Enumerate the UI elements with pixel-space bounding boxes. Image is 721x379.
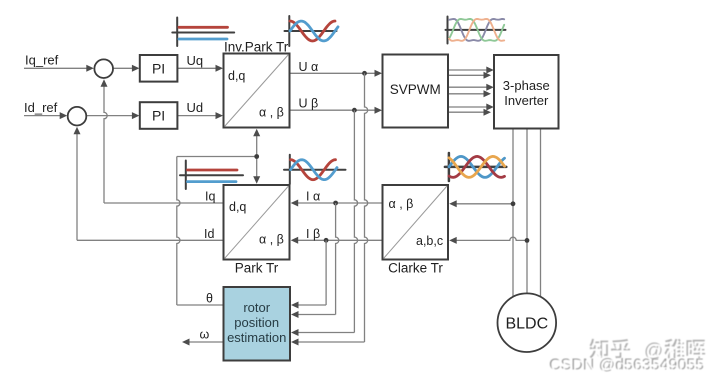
wire Iq_ref input bbox=[24, 67, 88, 69]
wire U-alpha drop to rotor estimator bbox=[365, 73, 368, 342]
wire I-alpha: Clarke to Park, node dot, hops bbox=[296, 202, 383, 204]
summing junction S1 bbox=[94, 59, 113, 78]
wire summing1 to PI1 bbox=[113, 67, 134, 69]
wire I-alpha drop to rotor estimator bbox=[336, 203, 339, 315]
watermark zhihu bbox=[590, 339, 707, 363]
block Inv.Park Tr bbox=[224, 54, 290, 128]
waveform icon: 3-phase currents (above Clarke Tr) bbox=[445, 153, 506, 181]
block SVPWM bbox=[383, 55, 449, 128]
svg-text:PI: PI bbox=[152, 108, 165, 124]
motor BLDC bbox=[498, 293, 557, 352]
svg-text:3-phase: 3-phase bbox=[503, 78, 550, 93]
svg-text:U α: U α bbox=[299, 60, 319, 74]
block Park Tr bbox=[224, 185, 290, 260]
PI controller PI1 bbox=[140, 55, 178, 82]
svg-text:Clarke Tr: Clarke Tr bbox=[388, 261, 443, 276]
wire U-beta: Inv.Park to SVPWM, node dot bbox=[290, 109, 377, 111]
wire Id feedback: Park to summing2 bbox=[77, 239, 224, 241]
wire U-alpha: Inv.Park to SVPWM, node dot bbox=[290, 72, 377, 74]
block 3-phase inverter bbox=[494, 55, 559, 129]
waveform icon: I-alpha/I-beta sines (middle) bbox=[284, 155, 346, 184]
waveform icon: Iq/Id dc levels (middle) bbox=[180, 161, 243, 190]
svg-text:a,b,c: a,b,c bbox=[416, 234, 443, 248]
svg-text:Ud: Ud bbox=[187, 100, 204, 115]
wires inverter to BLDC: three phases bbox=[512, 129, 514, 299]
wire I-beta drop to rotor estimator bbox=[325, 240, 327, 305]
wire phase-b tap to Clarke, node dot, hop bbox=[455, 237, 528, 240]
wire omega output bbox=[187, 341, 224, 343]
svg-text:I β: I β bbox=[306, 227, 320, 241]
svg-text:θ: θ bbox=[206, 292, 213, 306]
wire phase-a tap to Clarke, node dot bbox=[455, 203, 514, 205]
PI controller PI2 bbox=[140, 102, 178, 129]
svg-text:U β: U β bbox=[299, 97, 319, 111]
svg-text:rotor: rotor bbox=[243, 300, 270, 315]
wire Iq feedback: Park to summing1 bbox=[104, 202, 224, 204]
svg-text:position: position bbox=[234, 315, 279, 330]
block Clarke Tr bbox=[383, 185, 449, 260]
svg-text:ω: ω bbox=[200, 328, 210, 342]
wire theta: rotor position estimation to Park/Inv.Park, node dot bbox=[177, 304, 224, 306]
svg-text:BLDC: BLDC bbox=[505, 316, 548, 333]
waveform icon: SVPWM modulation waves (top right) bbox=[446, 17, 506, 44]
watermark csdn bbox=[549, 357, 706, 376]
waveform icon: Uq/Ud dc levels (top left) bbox=[172, 18, 234, 47]
svg-text:d,q: d,q bbox=[229, 200, 246, 214]
svg-text:d,q: d,q bbox=[228, 69, 245, 83]
wire U-beta drop to rotor estimator bbox=[354, 110, 357, 332]
waveform icon: U-alpha/U-beta sines (top middle) bbox=[285, 16, 339, 46]
svg-text:Inverter: Inverter bbox=[504, 93, 549, 108]
svg-text:Iq_ref: Iq_ref bbox=[25, 53, 59, 68]
svg-text:Uq: Uq bbox=[187, 53, 204, 68]
svg-text:α , β: α , β bbox=[259, 106, 284, 120]
wire Id_ref input bbox=[24, 115, 62, 117]
svg-text:Park Tr: Park Tr bbox=[235, 261, 279, 276]
svg-text:PI: PI bbox=[152, 60, 165, 76]
svg-text:α , β: α , β bbox=[389, 197, 414, 211]
wires SVPWM to inverter: six gate signals bbox=[448, 69, 489, 71]
wire Ud: PI2 to Inv.Park bbox=[177, 115, 217, 117]
svg-text:Id: Id bbox=[204, 227, 214, 241]
wire summing2 to PI2 bbox=[87, 115, 134, 117]
svg-text:estimation: estimation bbox=[227, 330, 286, 345]
wire Uq: PI1 to Inv.Park bbox=[177, 67, 217, 69]
svg-text:I α: I α bbox=[306, 190, 320, 204]
wire I-beta: Clarke to Park, node dot, hops bbox=[296, 239, 383, 241]
block rotor position estimation bbox=[224, 287, 291, 361]
svg-text:SVPWM: SVPWM bbox=[390, 82, 441, 97]
svg-text:α , β: α , β bbox=[259, 233, 284, 247]
svg-text:CSDN @d563549055: CSDN @d563549055 bbox=[551, 358, 706, 375]
summing junction S2 bbox=[68, 107, 87, 126]
svg-text:Iq: Iq bbox=[205, 190, 215, 204]
svg-text:Id_ref: Id_ref bbox=[24, 100, 58, 115]
svg-text:Inv.Park Tr: Inv.Park Tr bbox=[224, 40, 289, 55]
